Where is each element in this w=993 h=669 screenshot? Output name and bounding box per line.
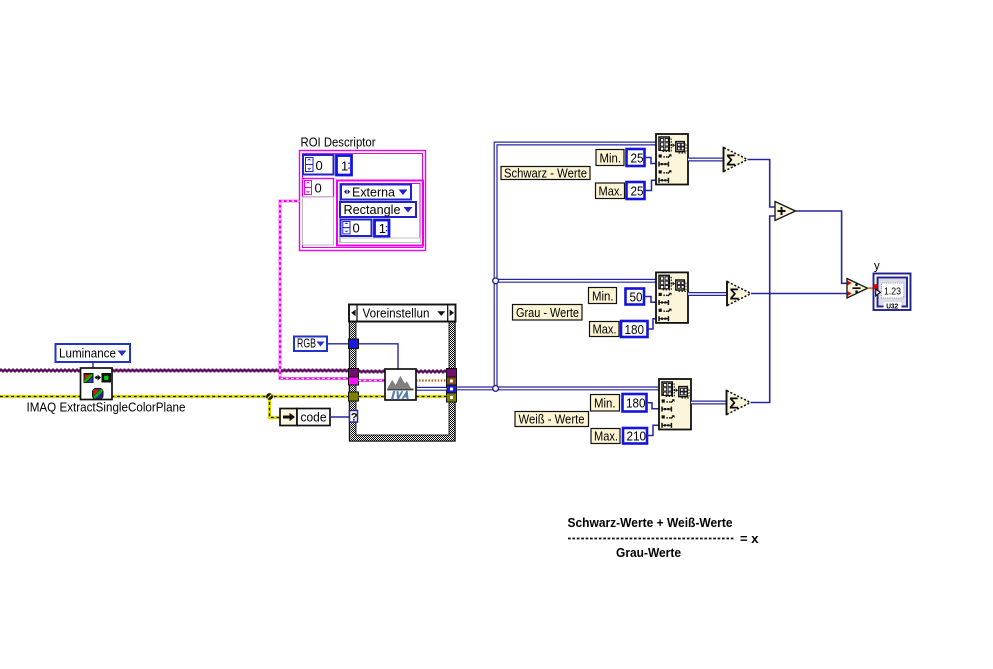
svg-text:ROI Descriptor: ROI Descriptor	[301, 135, 377, 150]
wire Schwarz Max to array subset	[645, 180, 657, 190]
tunnel report out (brown)	[447, 377, 457, 385]
svg-text:Min.: Min.	[594, 396, 616, 411]
wire error branch to code unbundler	[270, 397, 281, 418]
numeric array index control 0 (magenta)	[303, 179, 334, 198]
case structure title bar Voreinstellun	[349, 305, 456, 322]
node sum sigma Grau	[727, 281, 751, 307]
svg-text:y: y	[874, 261, 880, 273]
wire sigma Weiss to add	[751, 216, 776, 403]
svg-text:Max.: Max.	[593, 322, 617, 337]
wire image purple inside case right	[416, 370, 447, 373]
array index frame 1 (blue)	[337, 156, 352, 176]
tunnel image in (purple)	[349, 369, 359, 378]
svg-text:50: 50	[630, 290, 643, 305]
label Max. (Weiss)	[591, 429, 620, 444]
svg-text:Min.: Min.	[592, 289, 614, 304]
svg-text:Luminance: Luminance	[59, 346, 116, 361]
indicator y (U32)	[874, 274, 911, 311]
constant 180 (Grau Max)	[621, 321, 648, 337]
array element frame inner (grey)	[341, 238, 421, 243]
constant 25 (Schwarz Min)	[627, 149, 645, 166]
wire histogram blue inside case	[416, 387, 447, 391]
wire array blue main net	[457, 144, 659, 389]
tunnel ROI in (magenta)	[349, 377, 359, 385]
tunnel error out (olive)	[447, 393, 457, 402]
constant 210 (Weiss Max)	[623, 428, 647, 444]
junction error wire	[266, 393, 273, 400]
svg-text:Schwarz - Werte: Schwarz - Werte	[504, 166, 587, 181]
wire error olive inside case right	[416, 395, 447, 398]
wire divide to indicator (orange)	[868, 287, 874, 289]
label Min. (Schwarz)	[596, 150, 624, 166]
wire image purple inside case left	[359, 370, 386, 373]
svg-text:Max.: Max.	[594, 429, 618, 444]
svg-text:code: code	[301, 410, 327, 425]
wire Schwarz Min to array subset	[645, 158, 657, 164]
svg-text:1: 1	[341, 159, 348, 174]
label Max. (Grau)	[590, 322, 620, 337]
node array subset Schwarz	[656, 134, 688, 185]
wire array subset to sigma Weiss	[691, 401, 727, 405]
constant 180 (Weiss Min)	[623, 394, 647, 412]
label Min. (Grau)	[589, 288, 617, 304]
label Grau - Werte	[513, 305, 583, 321]
label Min. (Weiss)	[591, 395, 620, 412]
wire Weiss Max to array subset	[647, 425, 659, 435]
label Max. (Schwarz)	[596, 183, 625, 199]
svg-text:Grau-Werte: Grau-Werte	[616, 545, 681, 560]
dropdown Rectangle	[340, 202, 416, 217]
wire add to divide	[796, 211, 848, 283]
svg-text:IMAQ ExtractSingleColorPlane: IMAQ ExtractSingleColorPlane	[27, 400, 186, 415]
numeric control 0 (blue, inner)	[341, 220, 372, 237]
constant 50 (Grau Min)	[626, 289, 645, 305]
wire Grau Max to array subset	[648, 319, 657, 329]
wire Grau Min to array subset	[644, 297, 656, 303]
node array subset Grau	[656, 272, 688, 323]
wire RGB tunnel to IVA	[359, 344, 399, 369]
node add	[775, 202, 796, 221]
cluster ROI Descriptor outer border	[300, 151, 426, 251]
svg-text:180: 180	[625, 322, 645, 337]
tunnel RGB (blue)	[349, 339, 359, 349]
tunnel error in (olive)	[349, 392, 359, 401]
tunnel image out (purple)	[447, 369, 457, 378]
dropdown Luminance	[56, 344, 131, 362]
wire sigma Grau to divide	[751, 293, 847, 295]
junction array wire upper	[493, 278, 499, 284]
tunnel histogram out (blue)	[447, 385, 457, 393]
wire array subset to sigma Grau	[688, 292, 727, 296]
wire image purple left segment	[0, 369, 81, 372]
numeric array index control 0 (blue)	[303, 155, 334, 175]
node sum sigma Weiss	[727, 390, 751, 416]
svg-text:0: 0	[353, 221, 360, 236]
dropdown Externa	[341, 185, 411, 200]
wire image purple mid segment	[112, 369, 350, 372]
cluster inner ROI element border	[337, 181, 423, 246]
svg-text:U32: U32	[886, 301, 898, 310]
svg-text:1.23: 1.23	[884, 286, 901, 297]
svg-text:Externa: Externa	[352, 185, 396, 200]
node divide	[847, 279, 868, 299]
svg-text:Voreinstellun: Voreinstellun	[363, 306, 430, 321]
dropdown RGB	[294, 337, 327, 352]
svg-text:Grau - Werte: Grau - Werte	[516, 305, 579, 320]
wire Luminance to IMAQ node	[92, 362, 94, 369]
case selector terminal ?	[350, 411, 358, 424]
wire sigma Schwarz to add	[748, 160, 776, 208]
wire error yellow mid segment	[112, 395, 350, 398]
node IVA histogram	[385, 369, 416, 400]
svg-text:25: 25	[631, 184, 644, 199]
svg-text:Weiß - Werte: Weiß - Werte	[519, 412, 585, 427]
wire Weiss Min to array subset	[647, 403, 660, 409]
wire RGB to tunnel	[328, 343, 349, 345]
label Weiss - Werte	[515, 412, 589, 427]
node array subset Weiss	[659, 379, 691, 430]
svg-text:Max.: Max.	[599, 184, 623, 199]
svg-text:Schwarz-Werte + Weiß-Werte: Schwarz-Werte + Weiß-Werte	[568, 515, 733, 530]
node unbundle by name (code)	[280, 409, 330, 426]
label Schwarz - Werte	[501, 166, 590, 181]
wire report brown dotted inside case	[416, 379, 447, 381]
svg-text:25: 25	[631, 151, 644, 166]
svg-text:RGB: RGB	[297, 337, 316, 351]
array index frame 1 (blue, inner)	[375, 220, 390, 237]
svg-text:180: 180	[626, 396, 646, 411]
svg-text:210: 210	[627, 429, 647, 444]
wire error olive inside case left	[359, 395, 386, 398]
svg-text:?: ?	[351, 412, 358, 424]
svg-text:0: 0	[316, 158, 323, 173]
case structure Voreinstellung frame	[350, 322, 456, 442]
svg-text:0: 0	[315, 181, 322, 196]
svg-text:= x: = x	[740, 531, 759, 546]
svg-text:Min.: Min.	[600, 151, 622, 166]
node IMAQ ExtractSingleColorPlane	[81, 368, 113, 400]
wire array subset to sigma Schwarz	[688, 158, 724, 162]
svg-text:Rectangle: Rectangle	[344, 202, 401, 217]
node sum sigma Schwarz	[724, 147, 748, 173]
junction array wire lower	[493, 386, 499, 392]
wire ROI descriptor dashed magenta	[280, 201, 349, 379]
svg-text:1: 1	[379, 221, 386, 236]
constant 25 (Schwarz Max)	[627, 182, 645, 199]
wire code to case selector	[330, 416, 350, 418]
wire ROI magenta inside case	[359, 379, 386, 382]
formula dashed divider line	[568, 538, 734, 540]
array element frame (grey)	[303, 197, 334, 245]
wire error yellow left segment	[0, 395, 81, 398]
